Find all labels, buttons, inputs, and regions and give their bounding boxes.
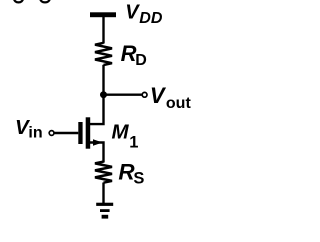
svg-text:V: V [150,83,167,108]
svg-text:DD: DD [139,10,163,27]
svg-text:R: R [121,41,137,66]
svg-text:M: M [112,121,130,144]
svg-text:V: V [125,1,140,23]
svg-text:S: S [133,170,144,188]
svg-text:D: D [135,52,147,69]
svg-text:out: out [166,95,192,112]
svg-text:in: in [28,124,42,141]
svg-text:1: 1 [129,134,138,152]
